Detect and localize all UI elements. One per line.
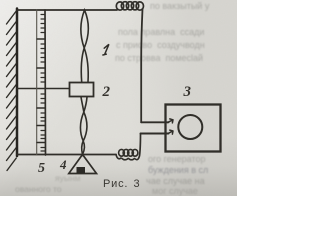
svg-text:3: 3	[183, 84, 192, 100]
svg-text:5: 5	[38, 161, 45, 176]
arrow wire upper into generator	[141, 121, 168, 123]
prism mass	[77, 167, 86, 173]
svg-text:4: 4	[59, 157, 67, 172]
bottom wire	[17, 154, 116, 156]
string 1 upper standing wave loop A	[81, 10, 88, 48]
svg-text:2: 2	[102, 84, 111, 100]
string 1 lower lens to apex	[82, 141, 85, 155]
labels	[38, 84, 192, 176]
support prism 4	[69, 155, 97, 174]
top coil L1	[116, 2, 143, 10]
right wire down from coil	[141, 9, 142, 122]
svg-text:Рис.: Рис.	[103, 178, 128, 190]
bleed-through text bottom right	[148, 154, 206, 164]
string 1 upper standing wave loop B	[81, 48, 88, 82]
caption Рис. 3	[103, 178, 140, 190]
ruler 5 left edge	[36, 10, 38, 155]
arrow wire lower into generator	[141, 133, 169, 135]
label 1	[103, 44, 109, 55]
generator dial circle	[178, 115, 202, 139]
bleed-through text bottom left	[55, 173, 81, 183]
string 1 lower neck	[81, 97, 87, 112]
ruler 5 ticks	[37, 15, 45, 152]
wall hatching	[7, 11, 17, 171]
ruler 5 right edge	[44, 10, 47, 155]
wall line	[16, 9, 19, 157]
string 1 lower standing wave loop C	[80, 112, 86, 141]
svg-text:3: 3	[134, 178, 141, 190]
vibrator box 2	[70, 83, 94, 97]
top wire	[17, 9, 117, 11]
paper shading	[0, 0, 237, 196]
generator box 3	[166, 105, 221, 152]
riser wire from bottom coil	[140, 134, 141, 157]
bleed-through text top right	[150, 1, 209, 11]
bottom coil L2	[116, 149, 139, 159]
pointer wire to vibrator	[17, 88, 69, 90]
